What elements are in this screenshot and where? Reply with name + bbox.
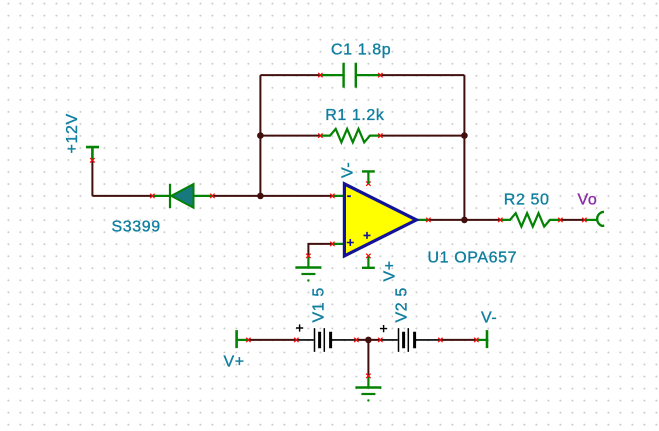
op-amp U1 positive supply marker — [364, 232, 371, 239]
pin marker C1 left — [318, 73, 322, 77]
pin marker C1 right — [378, 73, 382, 77]
wire R1 left — [260, 135, 320, 137]
svg-text:S3399: S3399 — [112, 219, 161, 236]
pin marker R2 right — [558, 218, 562, 222]
pin marker U1 inverting input — [330, 194, 334, 198]
pin marker U1 V+ supply — [366, 254, 370, 258]
junction node output / feedback — [461, 217, 468, 224]
battery V1 polarity + — [296, 324, 303, 331]
battery V1 leads — [296, 339, 356, 341]
wire battery midpoint to ground — [367, 340, 369, 376]
wire feedback right vertical — [463, 75, 465, 220]
wire V2 to V- terminal — [440, 339, 476, 341]
pin marker V2 + — [378, 338, 382, 342]
power terminal V+ — [235, 330, 238, 348]
wire +12V down — [91, 160, 93, 196]
pin marker U1 V- supply — [366, 181, 370, 185]
pin marker V2 - — [438, 338, 442, 342]
svg-text:+12V: +12V — [64, 113, 81, 153]
svg-text:Vo: Vo — [578, 192, 598, 209]
svg-text:V+: V+ — [224, 354, 245, 371]
op-amp U1 non-inverting input marker — [347, 239, 354, 246]
wire diode to op-amp inverting input — [212, 195, 332, 197]
resistor R2 — [500, 213, 560, 226]
wire +12V to diode — [92, 195, 152, 197]
svg-text:R1 1.2k: R1 1.2k — [325, 107, 385, 124]
pin marker Vo terminal — [582, 218, 586, 222]
op-amp U1 supply T-bars — [362, 171, 375, 267]
pin marker V1 + — [294, 338, 298, 342]
svg-text:R2 50: R2 50 — [504, 191, 550, 208]
pin marker U1 output — [426, 218, 430, 222]
svg-text:V2 5: V2 5 — [394, 287, 411, 322]
battery V2 leads — [380, 339, 440, 341]
wire R1 right — [380, 135, 464, 137]
pin marker +12V — [90, 158, 94, 162]
capacitor C1 leads — [320, 74, 380, 76]
ground at battery midpoint — [367, 376, 369, 387]
pin marker R1 left — [318, 133, 322, 137]
pin marker V+ terminal — [246, 338, 250, 342]
battery V2 plates — [399, 328, 409, 352]
resistor R1 — [320, 129, 380, 142]
svg-text:V-: V- — [340, 162, 357, 178]
pin marker ground 2 — [366, 374, 370, 378]
photodiode S3399 triangle — [171, 184, 193, 208]
wire non-inverting input to ground — [308, 244, 332, 256]
wire to C1 left — [260, 74, 320, 76]
power terminal +12V — [86, 147, 99, 160]
junction node feedback right / R1 — [461, 132, 468, 139]
wire op-amp output to R2 — [428, 219, 500, 221]
svg-text:U1 OPA657: U1 OPA657 — [428, 250, 518, 267]
pin marker U1 non-inverting input — [330, 242, 334, 246]
wire R2 to output terminal — [560, 219, 584, 221]
wire V+ terminal to V1 — [248, 339, 296, 341]
svg-text:V-: V- — [481, 310, 497, 327]
pin marker R1 right — [378, 133, 382, 137]
pin marker V- terminal — [474, 338, 478, 342]
svg-text:C1 1.8p: C1 1.8p — [331, 42, 391, 59]
pin marker S3399 anode — [150, 194, 154, 198]
op-amp U1 triangle — [344, 184, 416, 256]
capacitor C1 plates — [344, 63, 356, 88]
junction node inverting input — [257, 193, 264, 200]
pin marker S3399 cathode — [210, 194, 214, 198]
junction node battery midpoint — [365, 337, 372, 344]
pin marker R2 left — [498, 218, 502, 222]
wire C1 right — [380, 74, 464, 76]
wire V1 to V2 — [356, 339, 380, 341]
pin marker V1 - — [354, 338, 358, 342]
power terminal V- — [486, 330, 489, 348]
op-amp U1 inverting input marker — [347, 195, 351, 197]
photodiode S3399 leads and cathode bar — [152, 184, 212, 209]
svg-text:V1 5: V1 5 — [311, 287, 328, 322]
pin marker ground 1 — [306, 254, 310, 258]
ground at op-amp non-inverting input — [307, 256, 309, 267]
wire feedback left vertical — [259, 75, 261, 196]
junction node feedback left / R1 — [257, 132, 264, 139]
output terminal Vo arc — [584, 219, 597, 221]
op-amp U1 input/output/supply stubs — [332, 171, 428, 267]
battery V1 plates — [315, 328, 325, 352]
svg-text:V+: V+ — [382, 260, 399, 281]
battery V2 polarity + — [380, 325, 387, 332]
